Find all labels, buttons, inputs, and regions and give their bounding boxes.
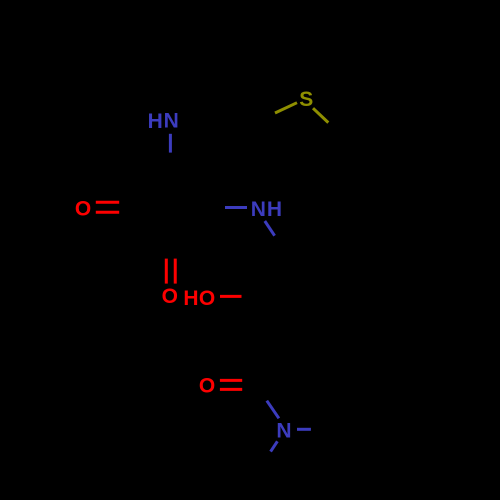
- svg-text:S: S: [299, 88, 313, 111]
- svg-text:H: H: [148, 110, 163, 133]
- svg-text:N: N: [251, 198, 266, 221]
- svg-text:N: N: [164, 110, 179, 133]
- svg-text:O: O: [162, 285, 178, 308]
- svg-text:H: H: [267, 198, 282, 221]
- svg-text:O: O: [75, 198, 91, 221]
- svg-text:O: O: [199, 374, 215, 397]
- svg-text:O: O: [199, 287, 215, 310]
- svg-text:N: N: [276, 420, 291, 443]
- svg-text:H: H: [183, 287, 198, 310]
